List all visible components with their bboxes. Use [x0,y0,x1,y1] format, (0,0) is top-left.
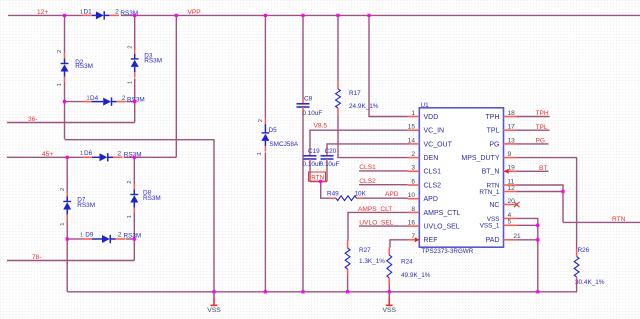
svg-text:24.9K_1%: 24.9K_1% [349,103,379,110]
pin 19 BT_N stub right [504,170,518,172]
wire RTN node down to R49 row [321,182,330,199]
designator R26 [578,247,590,254]
pin 9 MPS_DUTY stub right [504,157,518,159]
pin number 17 [508,124,516,131]
wire V8.5 VC_IN to C19 [310,130,408,152]
pin name BT_N [482,169,500,176]
svg-text:VSS: VSS [207,307,221,314]
net label VPP [188,9,202,16]
junction at 64.5,101.6 [63,100,66,103]
svg-text:C20: C20 [325,148,337,155]
svg-text:2: 2 [127,181,133,184]
net label TPH [536,110,549,117]
wire UVLO_SEL stub [359,225,408,227]
wire D2 column upper segment [64,15,66,53]
designator D1 [84,9,93,16]
junction at 537.8,291.8 [536,290,539,293]
pin 1 label D4 [87,96,90,102]
svg-text:AMPS_CTL: AMPS_CTL [424,210,461,217]
svg-text:16: 16 [408,220,416,227]
designator D4 [90,95,99,102]
svg-text:RS3M: RS3M [124,233,142,240]
svg-text:9: 9 [508,151,512,158]
junction at 369,15.4 [367,14,370,17]
svg-text:1: 1 [127,81,133,84]
pin 5 VSS_1 stub right [504,224,518,226]
svg-text:0.10uF: 0.10uF [320,161,340,168]
pin name VC_IN [424,128,445,135]
wire D4 row left segment [65,101,83,103]
wire D4 row right segment [127,101,135,103]
svg-text:NC: NC [489,202,499,209]
pin name TPL [487,128,500,135]
designator D9 [85,232,94,239]
wire D6 cathode to x176 riser [124,156,177,158]
wire AMPS_CLT to R27 [348,212,408,240]
diode D8 [130,184,138,213]
value R24 49.9K_1% [401,272,431,279]
net label BT [539,165,547,172]
junction at 265.4,291.8 [264,290,267,293]
svg-text:2: 2 [57,50,63,53]
wire CLS2 stub [359,184,408,186]
pin 4 VSS stub right [504,217,518,219]
svg-text:1: 1 [257,152,263,155]
pin number 6 [411,178,415,185]
svg-text:VPP: VPP [188,9,202,16]
wire D8 column lower segment to D9 row [133,213,135,239]
svg-text:21: 21 [513,233,521,240]
net label 78- [32,254,42,261]
pin 14 VC_OUT stub left [408,143,420,145]
svg-text:PG: PG [536,138,546,145]
svg-text:APD: APD [385,191,399,198]
pin 1 label D1 [80,9,83,15]
junction at 303,15.4 [301,14,304,17]
wire D7 column upper segment [66,157,68,191]
junction at 176.3,15.4 [175,14,178,17]
pin 20 NC stub right [504,204,518,206]
svg-text:V8.5: V8.5 [314,122,328,129]
svg-text:1: 1 [57,83,63,86]
designator D7 [77,197,86,204]
wire R24 bottom to VSS rail [388,285,390,292]
svg-text:20: 20 [508,198,516,205]
svg-text:REF: REF [424,237,438,244]
capacitor C19 [304,152,317,162]
pin name VC_OUT [424,141,453,148]
svg-text:AMPS_CLT: AMPS_CLT [358,206,392,213]
svg-text:PG: PG [489,141,499,148]
junction at 563,191.5 [561,190,564,193]
pin name REF [424,237,438,244]
pin 2 label D9 [118,231,122,238]
pin 10 APD stub left [408,198,420,200]
svg-text:2: 2 [118,150,122,157]
svg-text:SMCJ58A: SMCJ58A [269,141,299,148]
wire x176 riser to VPP rail [175,15,177,157]
pin name VSS_1 [480,223,500,230]
wire VC_OUT to C20 [327,144,408,152]
svg-text:CLS2: CLS2 [424,182,442,189]
svg-text:MPS_DUTY: MPS_DUTY [461,155,499,162]
value RS3M D1 [120,10,138,17]
pin number 13 [508,137,516,144]
wire D3 column lower segment to D4 row [134,78,136,101]
svg-text:5: 5 [508,219,512,226]
wire R17 column from VPP [337,15,339,81]
value RS3M D7 [77,202,95,209]
svg-text:TPL: TPL [487,128,500,135]
pin number 19 [508,165,516,172]
pin 6 CLS2 stub left [408,184,420,186]
value RS3M D3 [144,58,162,65]
value C19 0.10uF [303,161,323,168]
pin 1 label D6 [80,151,83,157]
pin 7 REF input arrow [415,237,420,242]
pin number 15 [408,124,416,131]
svg-text:UVLO_SEL: UVLO_SEL [359,220,393,227]
svg-text:D4: D4 [90,95,99,102]
wire RTN_1 pin12 tee [517,191,563,193]
svg-text:12+: 12+ [37,9,48,16]
designator C20 [325,148,337,155]
pin number 14 [408,137,416,144]
power port VSS right [382,292,396,314]
wire TPL [517,129,550,131]
svg-text:CLS1: CLS1 [424,169,442,176]
svg-text:15: 15 [408,124,416,131]
pin 2 label D1 [115,9,119,16]
designator D2 [75,59,84,66]
svg-text:7: 7 [411,233,415,240]
svg-text:VSS: VSS [382,307,396,314]
designator D6 [84,150,93,157]
junction at 537.8,225.3 [536,224,539,227]
pin 2 label D4 [122,95,126,102]
junction at 265.4,15.4 [264,14,267,17]
net label AMPS_CLT [358,206,392,213]
designator R27 [359,247,371,254]
pin 19 BT_N input arrow [504,169,509,174]
designator R17 [349,90,361,97]
pin name NC [489,202,499,209]
wire C20 bottom lead [326,162,328,182]
pin 11 RTN stub right [504,184,518,186]
wire C19-C20 bottom join [310,181,327,183]
value RS3M D9 [124,233,142,240]
pin number 5 [508,219,512,226]
pin 2 DEN stub left [408,157,420,159]
wire C19 bottom lead [309,162,311,182]
pin 7 REF stub left [408,239,420,241]
svg-text:19: 19 [508,165,516,172]
pin name APD [424,196,438,203]
svg-text:R27: R27 [359,247,371,254]
resistor R27 [345,241,350,276]
wire 45+ input to D6 anode [7,156,83,158]
junction at 303,291.8 [301,290,304,293]
wire D8 column upper segment [133,157,135,184]
svg-text:BT: BT [539,165,547,172]
value RS3M D8 [143,195,161,202]
svg-text:DEN: DEN [424,155,439,162]
resistor R24 [387,248,392,285]
value RS3M D2 [75,63,93,70]
pin name AMPS_CTL [424,210,461,217]
pin number 3 [411,165,415,172]
pin number 18 [508,110,516,117]
net label APD [385,191,399,198]
svg-text:1: 1 [80,233,83,239]
pin 2 label D5 [258,119,264,122]
svg-text:3: 3 [411,165,415,172]
svg-text:RS3M: RS3M [144,58,162,65]
svg-text:1: 1 [411,110,415,117]
pin number 21 [513,233,521,240]
svg-text:RTN_1: RTN_1 [479,189,500,196]
value C8 0.10uF [302,110,322,117]
svg-text:TPS2373-3RGWR: TPS2373-3RGWR [422,248,474,255]
svg-text:2: 2 [258,119,264,122]
net label UVLO_SEL [359,220,393,227]
svg-text:1: 1 [60,222,66,225]
svg-text:TPH: TPH [536,110,549,117]
svg-text:CLS1: CLS1 [359,164,376,171]
pin 8 AMPS_CTL stub left [408,211,420,213]
junction at 214,291.8 [212,290,215,293]
pin 18 TPH stub right [504,116,518,118]
svg-text:8: 8 [411,206,415,213]
net label 45+ [42,151,53,158]
svg-text:0.10uF: 0.10uF [302,110,322,117]
svg-text:36-: 36- [28,116,38,123]
value RS3M D4 [127,96,145,103]
pin 15 VC_IN stub left [408,129,420,131]
resistor R26 [574,249,579,284]
net label V8.5 [314,122,328,129]
value R27 1.3K_1% [359,258,385,265]
pin name TPH [486,114,500,121]
svg-text:TPH: TPH [486,114,500,121]
diode D4 [82,97,126,105]
diode D2 [61,53,69,82]
pin 1 label D8 [127,215,133,218]
designator R49 [327,191,339,198]
svg-text:17: 17 [508,124,516,131]
pin name RTN [486,182,499,189]
junction at 347.6,291.8 [346,290,349,293]
designator C19 [308,148,320,155]
net label CLS2 [359,178,376,185]
svg-text:R24: R24 [401,259,413,266]
diode D7 [63,191,71,220]
net label 36- [28,116,38,123]
svg-text:2: 2 [411,151,415,158]
pin name UVLO_SEL [424,224,460,231]
svg-text:2: 2 [122,95,126,102]
pin name DEN [424,155,439,162]
svg-text:1: 1 [80,151,83,157]
wire D2 column lower segment to D4 row [64,82,66,102]
pin 21 PAD stub right [504,239,518,241]
wire 78- riser to D9 cathode [133,239,135,261]
svg-text:R26: R26 [578,247,590,254]
resistor R17 [336,81,341,114]
svg-text:13: 13 [508,137,516,144]
capacitor C8 [297,99,310,113]
wire VSS bottom rail [67,291,577,293]
svg-text:12: 12 [508,185,516,192]
pin 1 label D7 [60,222,66,225]
net label PG [536,138,546,145]
wire left bridge output down to VSS rail [66,239,68,292]
svg-text:RS3M: RS3M [124,152,142,159]
diode D1 [83,11,119,19]
pin 2 label D8 [127,181,133,184]
svg-text:D1: D1 [84,9,93,16]
wire RTN pin11 to riser [517,185,563,222]
net label 12+ [37,9,48,16]
svg-text:45+: 45+ [42,151,53,158]
pin name CLS2 [424,182,442,189]
junction at 67.2,157.3 [66,156,69,159]
resistor R49 [330,196,363,201]
pin 1 label D3 [127,81,133,84]
svg-text:D5: D5 [269,127,278,134]
svg-text:RS3M: RS3M [77,202,95,209]
svg-text:2: 2 [118,231,122,238]
value TPS2373-3RGWR [422,248,474,255]
junction at 537.8,239.8 [536,238,539,241]
pin number 11 [508,178,515,185]
svg-text:C19: C19 [308,148,320,155]
junction at 134.7,15.4 [133,14,136,17]
pin 3 CLS1 stub left [408,170,420,172]
wire 36- input horizontal [7,122,135,124]
wire PG [517,143,549,145]
svg-text:R49: R49 [327,191,339,198]
diode D6 [83,153,123,161]
pin 2 label D2 [57,50,63,53]
pin 16 UVLO_SEL stub left [408,225,420,227]
pin number 1 [411,110,415,117]
wire C8 column lower segment to VSS rail [302,113,304,292]
wire MPS_DUTY to R26 column [517,158,577,249]
svg-text:UVLO_SEL: UVLO_SEL [424,224,460,231]
svg-text:APD: APD [424,196,438,203]
pin name CLS1 [424,169,442,176]
junction at 320.7,181.5 [319,180,322,183]
value R17 24.9K_1% [349,103,379,110]
wire D9 row right segment [126,238,135,240]
junction at 67.2,239 [66,237,69,240]
svg-text:TPL: TPL [536,124,548,131]
pin number 7 [411,233,415,240]
pin 2 label D3 [127,46,133,49]
power port VSS left [207,292,221,314]
svg-text:RTN: RTN [311,174,324,181]
pin number 10 [408,192,416,199]
capacitor C20 [321,152,334,162]
pin 2 label D6 [118,150,122,157]
diode D3 [131,49,139,78]
svg-text:2: 2 [127,46,133,49]
wire D9 row left segment [67,238,82,240]
svg-text:6: 6 [411,178,415,185]
junction at 338,15.4 [336,14,339,17]
wire D3 column upper segment from VPP [134,15,136,48]
svg-text:2: 2 [115,9,119,16]
pin number 2 [411,151,415,158]
wire BT [517,170,549,172]
wire 78- input horizontal [7,260,134,262]
net label TPL [536,124,548,131]
svg-text:49.9K_1%: 49.9K_1% [401,272,431,279]
svg-text:78-: 78- [32,254,42,261]
svg-text:1.3K_1%: 1.3K_1% [359,258,385,265]
svg-text:VSS_1: VSS_1 [480,223,500,230]
svg-text:10: 10 [408,192,416,199]
pin name PG [489,141,499,148]
pin number 16 [408,220,416,227]
wire VPP top rail from D1 cathode to right edge [121,14,640,16]
wire CLS1 stub [359,170,408,172]
value SMCJ58A [269,141,299,148]
designator D5 [269,127,278,134]
svg-text:14: 14 [408,137,416,144]
svg-text:BT_N: BT_N [482,169,500,176]
svg-text:C8: C8 [304,96,313,103]
wire PAD pin21 tee [517,239,538,241]
designator U1 [421,102,430,109]
wire C8 column upper segment from VPP [302,15,304,99]
op-amp U1 body TPS2373-3RGWR [419,108,503,247]
svg-text:VC_IN: VC_IN [424,128,445,135]
svg-text:18: 18 [508,110,516,117]
wire R49 to APD pin [363,197,408,199]
wire D5 column upper segment from VPP [264,15,266,118]
svg-text:CLS2: CLS2 [359,178,376,185]
wire R27 bottom to VSS rail [347,276,349,292]
pin name RTN_1 [479,189,500,196]
wire VDD column from VPP [369,15,408,116]
wire REF pin to R24 [390,240,408,248]
pin 2 label D7 [60,188,66,191]
svg-text:VC_OUT: VC_OUT [424,141,453,148]
svg-text:2: 2 [60,188,66,191]
svg-text:RS3M: RS3M [75,63,93,70]
svg-text:VDD: VDD [424,114,439,121]
wire 12+ input to D1 anode (top rail left) [8,14,83,16]
wire VSS_1 pin5 tee [517,224,538,226]
no-connect X on pin 20 [514,202,520,207]
wire x214 column down to VSS rail [213,139,215,292]
designator C8 [304,96,313,103]
pin number 12 [508,185,516,192]
junction at 134.3,157.3 [133,156,136,159]
wire VSS pin4 to column [517,218,538,291]
pin 1 label D9 [80,233,83,239]
pin name MPS_DUTY [461,155,499,162]
svg-text:D6: D6 [84,150,93,157]
value RS3M D6 [124,152,142,159]
svg-text:D9: D9 [85,232,94,239]
net label CLS1 [359,164,376,171]
designator R24 [401,259,413,266]
net label RTN right [612,216,626,223]
svg-text:30.4K_1%: 30.4K_1% [575,279,605,286]
